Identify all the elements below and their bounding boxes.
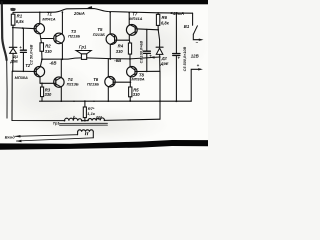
node D2 mid-rail junction (159, 56, 161, 58)
wire battery plus branch (191, 69, 200, 101)
transformer Tr1 winding II secondary (77, 132, 79, 135)
svg-text:6,8к: 6,8к (161, 21, 170, 26)
transistor T2 (34, 66, 44, 76)
transformer Tr1 winding III (88, 118, 105, 121)
svg-text:R6: R6 (162, 15, 168, 20)
svg-text:-6В: -6В (114, 58, 121, 63)
node T3 emitter junction (62, 58, 64, 60)
transistor T8 (127, 67, 137, 77)
svg-text:С2 50,0×6В: С2 50,0×6В (29, 44, 33, 65)
ink blotch top left (10, 8, 15, 11)
svg-text:-6В: -6В (50, 60, 57, 65)
node C2 bottom junction (23, 71, 25, 73)
transistor T1 (34, 23, 44, 33)
label winding III (96, 116, 101, 119)
wire input line lower (16, 138, 93, 141)
node R5 bottom junction (129, 100, 131, 102)
svg-text:П213Б: П213Б (68, 33, 80, 38)
svg-text:20мА: 20мА (73, 11, 85, 16)
transistor T4 (54, 77, 64, 87)
top page border band (0, 0, 208, 4)
wire T5 base line (115, 39, 130, 41)
terminal arrow minus (199, 39, 204, 41)
resistor R7 (84, 101, 86, 107)
resistor R1 (12, 12, 14, 14)
switch V1 (192, 13, 194, 25)
loudspeaker Gr1 (76, 51, 91, 54)
svg-text:Д9Е: Д9Е (9, 58, 18, 63)
resistor R2 (40, 43, 44, 52)
transistor T5 (106, 34, 117, 45)
node T4 emitter junction (60, 100, 62, 102)
svg-text:П213Б: П213Б (67, 81, 79, 86)
svg-text:Тр1: Тр1 (53, 121, 61, 126)
svg-text:–: – (196, 40, 199, 45)
current arrow mid rail (149, 56, 154, 58)
wire T3 base from T1 emitter (41, 38, 54, 40)
svg-text:Гр1: Гр1 (79, 45, 87, 50)
capacitor C5 (175, 13, 177, 53)
svg-text:МП41А: МП41А (129, 16, 142, 21)
transistor T7 (126, 25, 137, 36)
node C3 top junction (146, 29, 148, 31)
diode D1 (9, 46, 17, 48)
transistor T3 (54, 33, 65, 44)
input arrow upper (15, 135, 21, 138)
svg-text:Д9Е: Д9Е (160, 61, 169, 66)
wire T1 base rail (13, 28, 36, 29)
node D1/lower column junction (12, 70, 14, 72)
label winding I (72, 116, 75, 119)
left page edge band (2, 2, 7, 60)
svg-text:330: 330 (45, 92, 53, 97)
svg-text:40мА: 40мА (172, 11, 184, 16)
node speck on bottom rail right (93, 101, 94, 102)
node right column / bottom rail crossing (159, 100, 161, 102)
node R4 bottom junction (129, 58, 131, 60)
svg-text:МП41А: МП41А (42, 17, 55, 22)
label winding II (85, 132, 88, 135)
transformer core lines (60, 122, 108, 124)
svg-text:Т2: Т2 (25, 63, 31, 68)
wire right column to transformer (159, 71, 161, 119)
svg-text:330: 330 (45, 49, 53, 54)
svg-text:С3 100,0×6В: С3 100,0×6В (139, 41, 143, 64)
wire T6 base line (113, 81, 130, 83)
svg-text:R1: R1 (17, 13, 23, 18)
bottom page border band (0, 140, 208, 150)
terminal arrow plus (198, 68, 203, 70)
svg-text:П213Б: П213Б (87, 82, 99, 87)
capacitor C2 (22, 28, 24, 50)
capacitor C3 (146, 30, 148, 51)
resistor R3 (41, 83, 43, 87)
wire T7 base rail (135, 29, 158, 30)
wire T4 base line (40, 82, 56, 84)
node T5 emitter junction (109, 58, 111, 60)
node T6 emitter junction (107, 100, 109, 102)
transformer Tr1 winding I (65, 118, 82, 121)
resistor R5 (129, 87, 132, 97)
svg-text:330: 330 (116, 49, 124, 54)
svg-text:МП38А: МП38А (131, 76, 144, 81)
wire bottom rail (40, 100, 192, 102)
node R3 top junction (41, 82, 43, 84)
svg-text:Д2: Д2 (161, 56, 168, 61)
node R1/D1 junction (12, 27, 14, 29)
node top rail junctions (39, 11, 177, 14)
current arrow 40mA (168, 12, 173, 14)
node R6/D2 junction (157, 29, 159, 31)
svg-text:R4: R4 (118, 44, 124, 49)
svg-text:С5 500,0×10В: С5 500,0×10В (183, 47, 187, 72)
svg-text:Вход: Вход (5, 135, 15, 140)
diode D2 (158, 30, 159, 47)
node C2 top junction (22, 27, 24, 29)
wire mid rail right of speaker (87, 57, 160, 59)
wire top supply rail (13, 9, 193, 14)
node C5 bottom junction (175, 100, 177, 102)
svg-text:12В: 12В (191, 54, 199, 59)
wire input line upper (15, 135, 77, 137)
svg-text:R2: R2 (45, 44, 51, 49)
svg-text:П213Б: П213Б (93, 32, 105, 37)
node C3 bottom junction (146, 71, 148, 73)
transistor T6 (105, 77, 115, 87)
transformer Tr1 primary line (12, 71, 65, 120)
input arrow lower (16, 140, 22, 143)
wire mid rail left (42, 58, 81, 59)
node speck on bottom rail left (73, 101, 74, 102)
wire D1 anode column (12, 28, 14, 48)
node T6 base junction (130, 81, 132, 83)
svg-text:1,1к: 1,1к (87, 111, 96, 116)
resistor R4 (128, 40, 131, 43)
svg-text:МП38А: МП38А (15, 75, 28, 80)
svg-text:330: 330 (133, 92, 141, 97)
current arrow 20mA (87, 6, 92, 9)
svg-text:6,8к: 6,8к (16, 19, 25, 24)
node R7 top junction (84, 100, 86, 102)
svg-text:В1: В1 (184, 24, 190, 29)
wire T8 base line (135, 70, 160, 72)
wire T2 base line (13, 70, 37, 72)
resistor R6 (157, 13, 159, 15)
node R2 bottom junction (41, 58, 43, 60)
svg-text:+: + (197, 63, 200, 68)
